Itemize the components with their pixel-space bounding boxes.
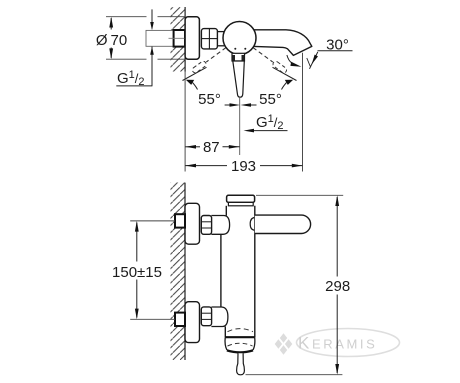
G1/2 leader (left): [116, 9, 154, 86]
escutcheon (top view): [185, 17, 199, 59]
outlet mouthpiece and water drop: [237, 353, 245, 375]
dim 298 line and arrows: [335, 195, 339, 374]
handle (bottom view, pointing right): [255, 215, 311, 233]
top connection: union hex: [201, 216, 211, 235]
outlet hidden arc upper (dashed): [228, 329, 254, 332]
svg-text:KERAMIS: KERAMIS: [298, 334, 377, 353]
neck to body: [217, 32, 227, 46]
svg-text:55°: 55°: [198, 91, 221, 108]
cap band: [228, 202, 253, 205]
body outline: [221, 206, 255, 338]
dim 87: [185, 139, 239, 156]
svg-text:87: 87: [203, 139, 220, 156]
bottom connection: wall nut: [175, 313, 185, 326]
svg-text:Ø 70: Ø 70: [96, 32, 127, 49]
outlet cup: [225, 338, 255, 353]
handle base bulge: [250, 218, 255, 231]
svg-text:150±15: 150±15: [112, 264, 162, 281]
top connection: dome boss into body: [211, 216, 229, 235]
lever collar (top view): [232, 53, 245, 61]
bottom connection: union hex: [201, 307, 211, 326]
union nut on pipe: [174, 30, 185, 47]
dim 150±15 extension lines: [130, 221, 175, 319]
svg-text:193: 193: [231, 158, 256, 175]
30° leader line + arrow: [307, 52, 318, 69]
bottom connection: escutcheon: [185, 302, 200, 343]
screws on body: [234, 48, 236, 50]
dim 150±15 line and arrows: [135, 221, 139, 319]
lever centerline: [239, 98, 241, 155]
svg-text:55°: 55°: [259, 91, 282, 108]
dim 298 extension lines: [246, 195, 344, 374]
lever (top view, pointing down): [233, 61, 245, 97]
body circle (top view): [223, 22, 256, 55]
watermark diamond icon: [275, 333, 293, 354]
55° extension line right + arrow: [273, 67, 297, 89]
ghost handle end right (dashed capsule): [272, 60, 288, 74]
55° extension line left + arrow: [183, 67, 207, 89]
outlet separation thick line: [225, 336, 255, 338]
dim 193: [185, 158, 302, 175]
union hex (top view): [201, 29, 217, 49]
wall (top view) hatched: [171, 7, 186, 72]
handle swing dashed axis right (55°): [253, 48, 273, 62]
handle swing dashed axis left (55°): [206, 48, 226, 62]
bottom connection: dome boss into body: [211, 307, 228, 327]
spout (top view): [251, 30, 312, 56]
extension line spout end: [302, 53, 304, 172]
body top cap: [227, 195, 255, 202]
watermark ellipse swoosh: [297, 329, 400, 357]
top connection: escutcheon: [185, 203, 200, 244]
55° pointer arrows at centerline: [225, 103, 257, 107]
G1/2 label (center) + leader: [244, 113, 288, 132]
svg-text:298: 298: [325, 278, 350, 295]
extension line wall face (top view): [184, 72, 186, 172]
wall (bottom view) hatched: [171, 183, 186, 361]
dim Ø70 extension lines: [106, 17, 185, 60]
pipe centerline: [169, 37, 186, 39]
ghost handle end left (dashed capsule): [191, 60, 207, 74]
dim Ø70 arrows and line: [109, 17, 113, 60]
top connection: wall nut: [175, 214, 185, 227]
supply pipe (top view): [146, 30, 174, 46]
30° swivel arc: [287, 55, 302, 67]
